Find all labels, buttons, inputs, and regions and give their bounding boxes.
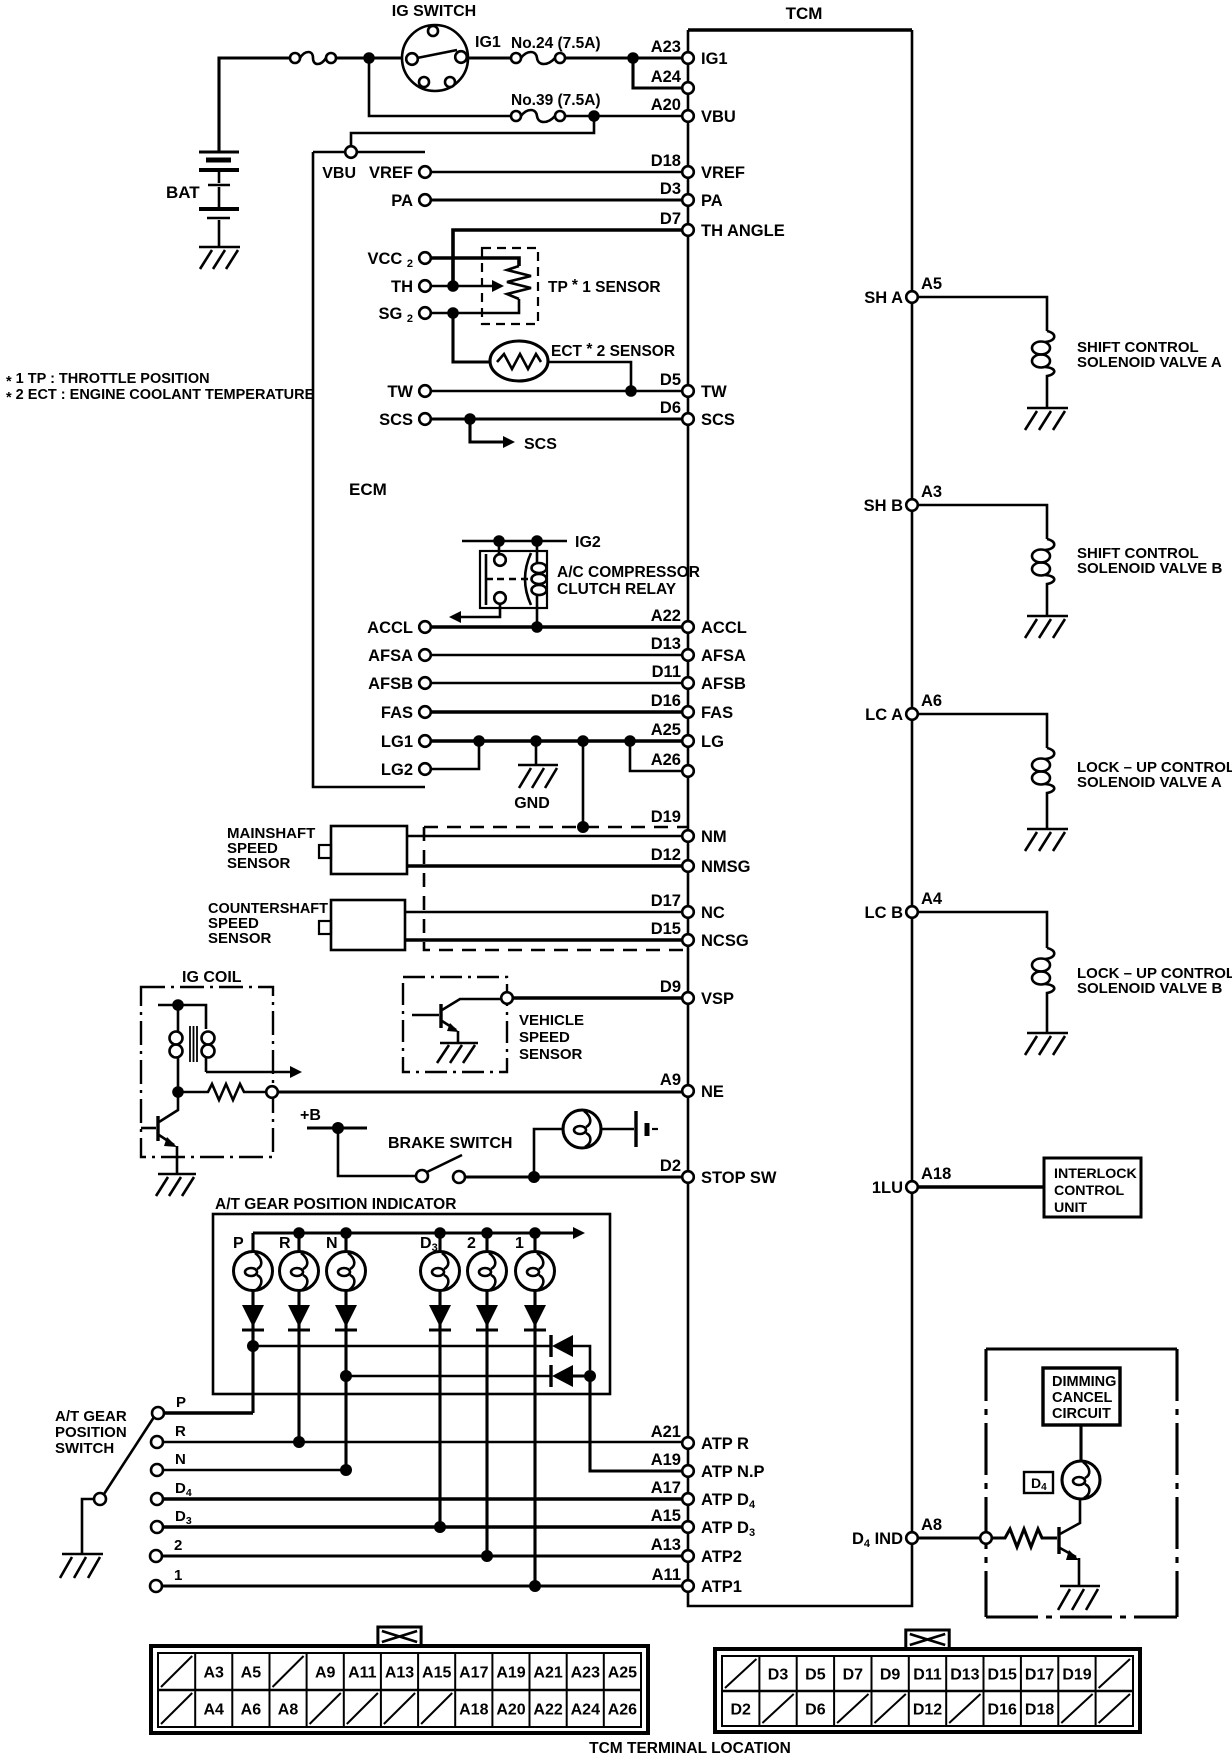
- svg-text:D11: D11: [913, 1667, 942, 1684]
- node SCS junction: [464, 413, 476, 425]
- vehicle speed sensor box (chain line): [403, 977, 507, 1072]
- svg-text:D19: D19: [651, 808, 681, 826]
- wire AFSB D11: [431, 682, 682, 685]
- DIMMING CANCEL CIRCUIT box: [1043, 1368, 1120, 1425]
- svg-text:D12: D12: [913, 1702, 942, 1719]
- node N column junction: [340, 1370, 352, 1382]
- svg-text:ATP D4: ATP D4: [701, 1491, 756, 1511]
- node relay contact feed: [493, 535, 505, 547]
- node VSP output: [501, 992, 513, 1004]
- ECM box: [313, 152, 425, 787]
- svg-text:LC A: LC A: [865, 706, 903, 724]
- svg-text:A3: A3: [921, 483, 942, 501]
- svg-text:PA: PA: [701, 192, 723, 210]
- svg-text:A24: A24: [571, 1702, 600, 1719]
- TCM terminal A15/ATP D3s: [651, 1507, 755, 1539]
- connector A (TCM 26P) keying tab: [378, 1627, 421, 1649]
- TCM terminal A20/VBU: [651, 96, 736, 126]
- svg-text:ACCL: ACCL: [701, 619, 747, 637]
- svg-text:ECM: ECM: [349, 480, 387, 499]
- ground (SH A solenoid): [1025, 408, 1068, 430]
- svg-text:P: P: [176, 1394, 186, 1411]
- svg-text:VREF: VREF: [701, 164, 745, 182]
- svg-text:1: 1: [174, 1567, 182, 1584]
- wire NC D17: [405, 911, 682, 914]
- wire ECT to TW: [548, 362, 631, 391]
- wire +B to brake switch: [338, 1128, 416, 1176]
- svg-text:GND: GND: [514, 795, 550, 812]
- TCM terminal D19/NM: [651, 808, 727, 846]
- svg-text:A/T GEAR: A/T GEAR: [55, 1408, 127, 1425]
- svg-text:SOLENOID VALVE B: SOLENOID VALVE B: [1077, 980, 1222, 997]
- svg-text:SCS: SCS: [379, 411, 413, 429]
- node +B junction: [332, 1122, 344, 1134]
- ECM terminal VCC2: [367, 250, 430, 270]
- svg-text:SH A: SH A: [864, 289, 903, 307]
- wire relay contact to arrow: [449, 604, 500, 623]
- svg-text:N: N: [175, 1451, 186, 1468]
- ECM terminal FAS: [381, 704, 431, 722]
- TCM terminal D12/NMSG: [651, 846, 751, 876]
- wire LC B solenoid: [918, 912, 1047, 948]
- svg-text:D13: D13: [651, 635, 681, 653]
- svg-text:A8: A8: [921, 1516, 942, 1534]
- node R wire junction: [293, 1436, 305, 1448]
- interlock control unit label: [1054, 1166, 1138, 1216]
- svg-text:+B: +B: [300, 1107, 321, 1124]
- wire D4 to ATP D4: [163, 1497, 682, 1501]
- TCM terminal A4/LC B: [865, 890, 943, 922]
- TCM terminal A3/SH B: [864, 483, 943, 515]
- wire LG1 A25: [431, 739, 682, 743]
- svg-text:IG SWITCH: IG SWITCH: [392, 3, 476, 20]
- svg-text:D18: D18: [651, 152, 681, 170]
- TCM terminal D7/TH ANGLE: [660, 210, 785, 240]
- connector D (TCM 22P) body: [715, 1649, 1140, 1732]
- TCM terminal A25/LG: [651, 721, 724, 751]
- diode (N row, points left): [551, 1365, 573, 1387]
- wire VSP D9: [513, 996, 682, 1000]
- svg-text:A17: A17: [651, 1479, 681, 1497]
- wire VCC2 to TP sensor: [431, 258, 519, 266]
- wire SH B solenoid: [918, 505, 1047, 539]
- wire AFSA D13: [431, 654, 682, 657]
- ECM terminal VBU: [322, 146, 357, 182]
- svg-text:ACCL: ACCL: [367, 619, 413, 637]
- solenoid coil SH A solenoid: [1032, 331, 1054, 408]
- svg-text:TCM TERMINAL LOCATION: TCM TERMINAL LOCATION: [589, 1740, 791, 1757]
- switch IG SWITCH: [402, 25, 468, 91]
- svg-text:D6: D6: [805, 1702, 826, 1719]
- svg-text:No.39 (7.5A): No.39 (7.5A): [511, 92, 601, 109]
- vehicle speed sensor label: [519, 1012, 584, 1063]
- svg-text:CONTROL: CONTROL: [1054, 1183, 1124, 1199]
- ground (battery): [199, 247, 240, 269]
- TP sensor dashed box: [482, 248, 538, 324]
- svg-text:A13: A13: [651, 1536, 681, 1554]
- wire VBU to ECM: [351, 116, 594, 146]
- svg-text:A25: A25: [608, 1665, 637, 1682]
- connector A (TCM 26P) pin labels: [161, 1656, 637, 1724]
- svg-text:VEHICLE: VEHICLE: [519, 1012, 584, 1029]
- TCM terminal A9/NE: [660, 1071, 724, 1101]
- ground (LC A solenoid): [1025, 829, 1068, 851]
- connector D (TCM 22P) grid: [722, 1656, 1133, 1726]
- svg-text:UNIT: UNIT: [1054, 1200, 1087, 1216]
- wire TH to TP sensor (arrow): [431, 280, 504, 292]
- transistor Q (IG coil): [141, 1092, 178, 1174]
- svg-text:TP * 1 SENSOR: TP * 1 SENSOR: [548, 277, 661, 296]
- fuse No.24: [511, 52, 565, 64]
- svg-text:FAS: FAS: [701, 704, 733, 722]
- svg-text:D3: D3: [660, 180, 681, 198]
- svg-text:A13: A13: [385, 1665, 414, 1682]
- TCM terminal A5/SH A: [864, 275, 942, 307]
- indicator box: [213, 1214, 610, 1394]
- battery BAT: [199, 152, 239, 247]
- svg-text:D13: D13: [950, 1667, 979, 1684]
- svg-text:A25: A25: [651, 721, 681, 739]
- svg-text:D17: D17: [651, 892, 681, 910]
- node LG junction 2 (GND): [530, 735, 542, 747]
- svg-text:A24: A24: [651, 68, 682, 86]
- node relay coil feed: [531, 535, 543, 547]
- note: TP/ECT abbreviations: [6, 371, 315, 406]
- solenoid coil SH B solenoid: [1032, 539, 1054, 616]
- svg-text:A18: A18: [459, 1702, 488, 1719]
- wire SG2 to TP sensor: [431, 299, 519, 313]
- svg-text:VBU: VBU: [322, 165, 356, 182]
- svg-text:SCS: SCS: [524, 436, 557, 453]
- node D3 wire junction: [434, 1521, 446, 1533]
- svg-text:D11: D11: [652, 663, 681, 681]
- TCM terminal A24: [651, 68, 694, 94]
- node coil feed junction: [172, 999, 184, 1011]
- fuse No.39: [511, 110, 565, 122]
- TCM terminal D6/SCS: [660, 399, 735, 429]
- TCM terminal D18/VREF: [651, 152, 745, 182]
- ECM terminal ACCL: [367, 619, 431, 637]
- svg-text:A9: A9: [315, 1665, 336, 1682]
- switch contact P: [152, 1394, 186, 1419]
- transistor Q (dimming): [1059, 1499, 1080, 1586]
- battery feed symbol (stop light): [601, 1111, 658, 1147]
- ECM terminal LG2: [381, 761, 431, 779]
- wire NMSG D12: [407, 864, 682, 868]
- dimming cancel circuit outer box (chain line): [986, 1349, 1177, 1617]
- svg-text:NE: NE: [701, 1083, 724, 1101]
- svg-text:ATP2: ATP2: [701, 1548, 742, 1566]
- connector A (TCM 26P) grid: [158, 1653, 641, 1727]
- svg-text:VSP: VSP: [701, 990, 734, 1008]
- wire A24 branch: [633, 58, 682, 88]
- ECM terminal LG1: [381, 733, 431, 751]
- svg-text:CANCEL: CANCEL: [1052, 1390, 1113, 1406]
- countershaft speed sensor label: [208, 901, 328, 947]
- wire pole to ground: [82, 1499, 94, 1554]
- svg-text:A23: A23: [651, 38, 681, 56]
- lamp D4 indicator: [1062, 1461, 1100, 1499]
- svg-text:P: P: [233, 1235, 244, 1252]
- DIMMING CANCEL CIRCUIT label: [1052, 1374, 1116, 1422]
- svg-text:A26: A26: [651, 751, 681, 769]
- svg-text:A/T GEAR POSITION INDICATOR: A/T GEAR POSITION INDICATOR: [215, 1196, 456, 1213]
- svg-text:POSITION: POSITION: [55, 1424, 127, 1441]
- svg-text:D4 IND: D4 IND: [852, 1530, 903, 1550]
- wire secondary output (arrow): [206, 1066, 302, 1078]
- svg-text:A9: A9: [660, 1071, 681, 1089]
- TCM terminal D15/NCSG: [651, 920, 749, 950]
- svg-text:LG: LG: [701, 733, 724, 751]
- svg-text:D2: D2: [660, 1157, 681, 1175]
- svg-text:A18: A18: [921, 1165, 951, 1183]
- ECM terminal VREF: [369, 164, 431, 182]
- svg-text:DIMMING: DIMMING: [1052, 1374, 1116, 1390]
- svg-text:A23: A23: [571, 1665, 600, 1682]
- svg-text:D16: D16: [651, 692, 681, 710]
- node A23 junction: [627, 52, 639, 64]
- switch contact D4: [151, 1480, 192, 1505]
- wire D19 dashed (shield top): [424, 826, 688, 829]
- switch contact D3: [151, 1508, 192, 1533]
- ground (SH B solenoid): [1025, 616, 1068, 638]
- node NE junction: [172, 1086, 184, 1098]
- svg-text:AFSB: AFSB: [368, 675, 413, 693]
- wire STOP SW D2: [465, 1175, 682, 1178]
- wire NE A9: [278, 1090, 682, 1093]
- node stop lamp junction: [528, 1171, 540, 1183]
- ground GND (ECM logic ground): [518, 765, 558, 788]
- node D19 junction: [577, 821, 589, 833]
- ECM terminal AFSB: [368, 675, 431, 693]
- svg-text:IG1: IG1: [475, 34, 501, 51]
- svg-text:TH ANGLE: TH ANGLE: [701, 222, 785, 240]
- svg-text:NC: NC: [701, 904, 725, 922]
- svg-text:FAS: FAS: [381, 704, 413, 722]
- svg-text:A5: A5: [921, 275, 942, 293]
- svg-text:A19: A19: [496, 1665, 525, 1682]
- svg-text:ATP N.P: ATP N.P: [701, 1463, 765, 1481]
- resistor (IG coil): [178, 1084, 267, 1100]
- ground (dimming): [1058, 1586, 1100, 1610]
- node N wire junction: [340, 1464, 352, 1476]
- mainshaft speed sensor label: [227, 825, 315, 872]
- TCM terminal A13/ATP2: [651, 1536, 742, 1566]
- node IG feed junction: [363, 52, 375, 64]
- wire NM D19: [407, 835, 682, 838]
- switch contact 1: [150, 1567, 182, 1592]
- switch contact N: [151, 1451, 186, 1476]
- svg-text:TW: TW: [387, 383, 413, 401]
- node TW junction: [625, 385, 637, 397]
- svg-text:D5: D5: [660, 371, 681, 389]
- node LG junction 4 (A26): [624, 735, 636, 747]
- svg-text:SOLENOID VALVE A: SOLENOID VALVE A: [1077, 774, 1222, 791]
- TCM control module box: [688, 30, 912, 1606]
- wire diode to corner: [573, 1346, 590, 1370]
- svg-text:D7: D7: [660, 210, 681, 228]
- connector D (TCM 22P) pin labels: [725, 1659, 1130, 1723]
- TCM terminal D2/STOP SW: [660, 1157, 777, 1187]
- svg-text:LC B: LC B: [865, 904, 904, 922]
- lamp 1 indicator column: [515, 1227, 555, 1586]
- node VBU branch junction: [588, 110, 600, 122]
- TCM terminal A8/D4IND: [852, 1516, 942, 1550]
- wire LG2: [431, 741, 479, 769]
- svg-text:D18: D18: [1025, 1702, 1054, 1719]
- solenoid coil LC A solenoid: [1032, 748, 1054, 829]
- svg-text:ATP1: ATP1: [701, 1578, 742, 1596]
- resistor (dimming): [992, 1529, 1057, 1547]
- lamp stop light: [563, 1110, 601, 1148]
- svg-text:ECT * 2 SENSOR: ECT * 2 SENSOR: [551, 341, 675, 360]
- svg-text:VREF: VREF: [369, 164, 413, 182]
- wire IG2 feed: [462, 540, 567, 543]
- label SHIFT CONTROL SOLENOID VALVE B: [1077, 545, 1222, 577]
- wire N to lamp column: [163, 1469, 346, 1472]
- wire A8 to dimming circuit: [918, 1536, 980, 1539]
- svg-text:D16: D16: [988, 1702, 1017, 1719]
- TCM terminal A17/ATP D4s: [651, 1479, 756, 1511]
- node 1 wire junction: [529, 1580, 541, 1592]
- svg-text:PA: PA: [391, 192, 413, 210]
- svg-text:A/C COMPRESSOR: A/C COMPRESSOR: [557, 564, 700, 581]
- D4 label box: [1024, 1472, 1053, 1493]
- TCM terminal D3/PA: [660, 180, 723, 210]
- svg-text:A15: A15: [651, 1507, 681, 1525]
- wire PA D3: [431, 198, 682, 201]
- svg-text:D19: D19: [1062, 1667, 1091, 1684]
- node NE pickup: [266, 1086, 278, 1098]
- svg-text:A11: A11: [652, 1566, 681, 1584]
- switch brake switch: [416, 1155, 465, 1183]
- node diode junction: [584, 1370, 596, 1382]
- svg-text:1: 1: [515, 1235, 524, 1252]
- svg-text:2: 2: [174, 1537, 182, 1554]
- wire P to indicator: [164, 1411, 253, 1415]
- TCM terminal A26: [651, 751, 694, 777]
- svg-text:LG2: LG2: [381, 761, 413, 779]
- fuse (battery main): [290, 52, 336, 64]
- IG coil box (chain line): [141, 987, 273, 1157]
- svg-text:A21: A21: [651, 1423, 681, 1441]
- svg-text:BRAKE SWITCH: BRAKE SWITCH: [388, 1135, 512, 1152]
- ECM terminal AFSA: [368, 647, 431, 665]
- wire 2 to ATP2: [162, 1554, 682, 1557]
- wire dimming box to lamp: [1079, 1425, 1082, 1461]
- relay A/C compressor clutch relay box: [480, 551, 547, 608]
- svg-text:SCS: SCS: [701, 411, 735, 429]
- relay contact bottom: [494, 592, 506, 604]
- connector A (TCM 26P) body: [151, 1646, 648, 1733]
- svg-text:D15: D15: [651, 920, 681, 938]
- indicator bus wire (arrow): [253, 1227, 585, 1239]
- svg-text:A11: A11: [348, 1665, 377, 1682]
- relay contact plate: [486, 554, 493, 605]
- label SHIFT CONTROL SOLENOID VALVE A: [1077, 339, 1222, 371]
- diode (P row, points left): [551, 1335, 573, 1357]
- TCM terminal A21/ATP R: [651, 1423, 749, 1453]
- node LG junction 1: [473, 735, 485, 747]
- ground (IG coil): [156, 1174, 196, 1196]
- ECT sensor: [490, 341, 548, 381]
- node A8 entry: [980, 1532, 992, 1544]
- svg-text:SENSOR: SENSOR: [208, 930, 272, 947]
- svg-text:CLUTCH RELAY: CLUTCH RELAY: [557, 581, 677, 598]
- svg-text:A5: A5: [241, 1665, 262, 1682]
- countershaft speed sensor box: [319, 900, 405, 950]
- ground (A/T gear switch): [60, 1554, 103, 1578]
- ground (LC B solenoid): [1025, 1033, 1068, 1055]
- transformer IG coil windings: [170, 1005, 215, 1092]
- svg-text:A4: A4: [203, 1702, 224, 1719]
- svg-text:LG1: LG1: [381, 733, 413, 751]
- switch contact R: [151, 1423, 186, 1448]
- wire 1 to ATP1: [162, 1584, 682, 1587]
- wire coil feed: [158, 1005, 206, 1029]
- TCM terminal D9/VSP: [660, 978, 734, 1008]
- svg-text:IG2: IG2: [575, 534, 601, 551]
- wire SG2 to ECT sensor: [453, 313, 491, 362]
- svg-text:A6: A6: [921, 692, 942, 710]
- svg-text:D9: D9: [880, 1667, 901, 1684]
- node SG2 junction: [447, 307, 459, 319]
- svg-text:A8: A8: [278, 1702, 299, 1719]
- svg-text:A19: A19: [651, 1451, 681, 1469]
- svg-text:A4: A4: [921, 890, 943, 908]
- svg-text:NMSG: NMSG: [701, 858, 751, 876]
- svg-text:SOLENOID VALVE A: SOLENOID VALVE A: [1077, 354, 1222, 371]
- wire TH ANGLE D7: [453, 230, 682, 286]
- svg-text:SOLENOID VALVE B: SOLENOID VALVE B: [1077, 560, 1222, 577]
- ECM terminal TW: [387, 383, 430, 401]
- relay actuator dashed link: [497, 578, 528, 581]
- lamp P indicator column: [233, 1233, 273, 1413]
- svg-text:TCM: TCM: [786, 4, 823, 23]
- wire TW D5: [431, 390, 682, 393]
- svg-text:AFSA: AFSA: [368, 647, 413, 665]
- svg-text:A20: A20: [651, 96, 681, 114]
- wire SH A solenoid: [918, 297, 1047, 331]
- lamp D3 indicator column: [420, 1227, 460, 1527]
- svg-text:STOP SW: STOP SW: [701, 1169, 777, 1187]
- wire ILU A18: [918, 1185, 1044, 1189]
- ECM terminal SG2: [378, 305, 430, 325]
- solenoid coil LC B solenoid: [1032, 948, 1054, 1033]
- shield box left/bottom dashed: [424, 827, 684, 950]
- node 2 wire junction: [481, 1550, 493, 1562]
- wire diode junction to ATP N.P: [573, 1376, 682, 1471]
- svg-text:D3: D3: [768, 1667, 789, 1684]
- lamp N indicator column: [326, 1227, 366, 1470]
- wire N-row to diode: [346, 1375, 551, 1378]
- svg-text:SWITCH: SWITCH: [55, 1440, 114, 1457]
- wire to stop lamp: [534, 1129, 563, 1177]
- svg-text:A22: A22: [533, 1702, 562, 1719]
- svg-text:D9: D9: [660, 978, 681, 996]
- svg-text:CIRCUIT: CIRCUIT: [1052, 1406, 1111, 1422]
- TCM terminal D13/AFSA: [651, 635, 746, 665]
- TCM terminal A19/ATP N.P: [651, 1451, 765, 1481]
- label LOCK &#8211; UP CONTROL SOLENOID VALVE A: [1077, 759, 1232, 791]
- svg-text:SENSOR: SENSOR: [519, 1046, 583, 1063]
- svg-text:BAT: BAT: [166, 183, 200, 202]
- svg-text:2: 2: [467, 1235, 476, 1252]
- svg-text:A21: A21: [533, 1665, 562, 1682]
- svg-text:A20: A20: [496, 1702, 525, 1719]
- ECM terminal PA: [391, 192, 431, 210]
- svg-text:NCSG: NCSG: [701, 932, 749, 950]
